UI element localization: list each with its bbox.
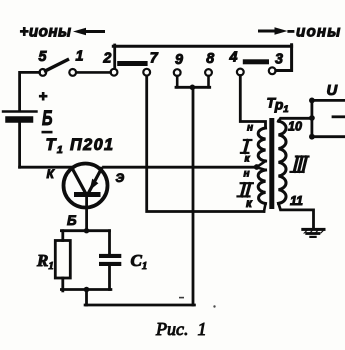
capacitor C1 top plate bbox=[99, 254, 121, 258]
label III winding bbox=[291, 157, 309, 172]
wire stub contact 8 down bbox=[207, 76, 210, 87]
ground symbol bbox=[301, 228, 325, 238]
svg-text:10: 10 bbox=[288, 120, 302, 134]
joining bar contacts 9-8 bbox=[176, 86, 210, 89]
contact 5 circle bbox=[39, 69, 46, 76]
emitter arrowhead bbox=[90, 179, 99, 191]
svg-text:н: н bbox=[247, 123, 253, 134]
svg-text:Б: Б bbox=[42, 107, 53, 130]
pin 10 wire to output bus bbox=[279, 118, 312, 121]
wire bottom node down bbox=[85, 290, 88, 306]
wire contact 4 down to winding I start bbox=[240, 76, 265, 129]
right rail down to C1 bbox=[108, 231, 111, 254]
wire contact 2 up to top bus bbox=[113, 45, 116, 69]
switch arm at contact 5 bbox=[46, 60, 68, 71]
transformer core bbox=[269, 118, 274, 209]
output mid terminal wire fragment bbox=[333, 115, 345, 118]
svg-text:5: 5 bbox=[39, 49, 48, 65]
svg-text:4: 4 bbox=[229, 50, 238, 66]
bottom wire to vertical of node 9-8 bbox=[85, 304, 194, 307]
svg-text:1: 1 bbox=[76, 49, 84, 65]
resistor R1 body bbox=[55, 241, 70, 279]
contact bridge bar 2-7 bbox=[117, 61, 147, 66]
left rail below R1 bbox=[61, 278, 64, 291]
junction dot output mid bbox=[309, 115, 315, 121]
svg-text:Рис. 1: Рис. 1 bbox=[155, 319, 206, 339]
capacitor C1 bottom plate bbox=[99, 262, 121, 266]
transistor collector diagonal bbox=[72, 168, 86, 193]
contact bridge bar 4-3 bbox=[243, 59, 269, 64]
base lead down from transistor bbox=[85, 196, 88, 231]
winding II end link to wire bbox=[264, 204, 266, 212]
contact 9 circle bbox=[174, 69, 181, 76]
svg-text:11: 11 bbox=[290, 194, 303, 208]
svg-text:+ионы: +ионы bbox=[20, 23, 72, 40]
junction dot transformer mid node bbox=[254, 164, 260, 170]
bus right elbow down to contact 3 bbox=[276, 45, 292, 71]
svg-text:н: н bbox=[244, 169, 250, 180]
contact 3 circle bbox=[269, 67, 276, 74]
output top terminal wire bbox=[312, 99, 345, 102]
svg-text:Э: Э bbox=[116, 171, 125, 185]
contact 8 circle bbox=[205, 69, 212, 76]
svg-text:+: + bbox=[39, 88, 48, 105]
svg-text:8: 8 bbox=[206, 51, 214, 67]
winding II start link from mid junction bbox=[257, 167, 266, 170]
label I winding bbox=[241, 140, 252, 153]
stray dash artifact bbox=[179, 297, 184, 299]
battery minus sign bbox=[42, 131, 53, 134]
wire stub contact 9 down bbox=[176, 76, 179, 87]
wire contact 1 to contact 2 bbox=[76, 71, 110, 74]
arrow left (positive ions direction) bbox=[73, 28, 105, 35]
battery B long positive plate bbox=[3, 110, 37, 112]
wire battery top to contact 5 bbox=[20, 72, 40, 111]
pin 11 wire to ground bbox=[279, 203, 314, 228]
wire from node 9-8 down to bottom wire bbox=[192, 87, 195, 305]
svg-text:2: 2 bbox=[102, 51, 111, 67]
bottom rail of R1/C1 loop bbox=[61, 288, 111, 291]
winding II (3 bumps) bbox=[258, 170, 265, 204]
stray dot artifact bbox=[213, 305, 215, 307]
winding I (3 bumps) bbox=[258, 128, 265, 161]
battery B short negative plate bbox=[9, 116, 31, 123]
svg-text:7: 7 bbox=[150, 51, 159, 67]
junction dot bottom node bbox=[84, 287, 90, 293]
transistor base bar bbox=[74, 192, 101, 197]
contact 1 circle bbox=[69, 69, 76, 76]
left rail down to R1 bbox=[61, 231, 64, 241]
junction dot node 9-8 bbox=[190, 85, 196, 91]
wire battery bottom to collector line bbox=[18, 123, 21, 168]
svg-text:ионы: ионы bbox=[296, 23, 341, 40]
winding I end link to mid junction bbox=[257, 161, 266, 167]
svg-text:3: 3 bbox=[275, 52, 283, 68]
winding III (6 bumps) bbox=[279, 121, 287, 203]
wire contact 7 down and right to winding II end bbox=[147, 76, 264, 212]
junction dot output bottom bbox=[309, 134, 315, 140]
emitter wire to transformer mid junction bbox=[104, 166, 257, 169]
label -ions text top-right bbox=[287, 30, 294, 33]
contact 7 circle bbox=[143, 69, 150, 76]
output bottom terminal wire bbox=[312, 135, 345, 138]
contact 2 circle bbox=[111, 69, 118, 76]
arrow right (negative ions direction) bbox=[258, 27, 288, 34]
top bus wire bbox=[113, 45, 291, 48]
right rail below C1 bbox=[108, 266, 111, 290]
svg-text:9: 9 bbox=[175, 52, 183, 68]
top rail of R1/C1 loop bbox=[61, 229, 109, 232]
label II winding bbox=[238, 183, 253, 196]
junction dot output top bbox=[309, 98, 315, 104]
contact 4 circle bbox=[237, 69, 244, 76]
collector wire from battery to transistor bbox=[20, 166, 72, 169]
svg-text:Б: Б bbox=[67, 213, 77, 228]
svg-text:U: U bbox=[327, 83, 338, 99]
transistor emitter diagonal with arrow bbox=[89, 169, 102, 193]
transistor Q1 circle bbox=[64, 164, 108, 208]
junction dot base node bbox=[84, 228, 89, 233]
output bus vertical bbox=[310, 100, 313, 136]
svg-text:Т1 П201: Т1 П201 bbox=[46, 136, 115, 156]
